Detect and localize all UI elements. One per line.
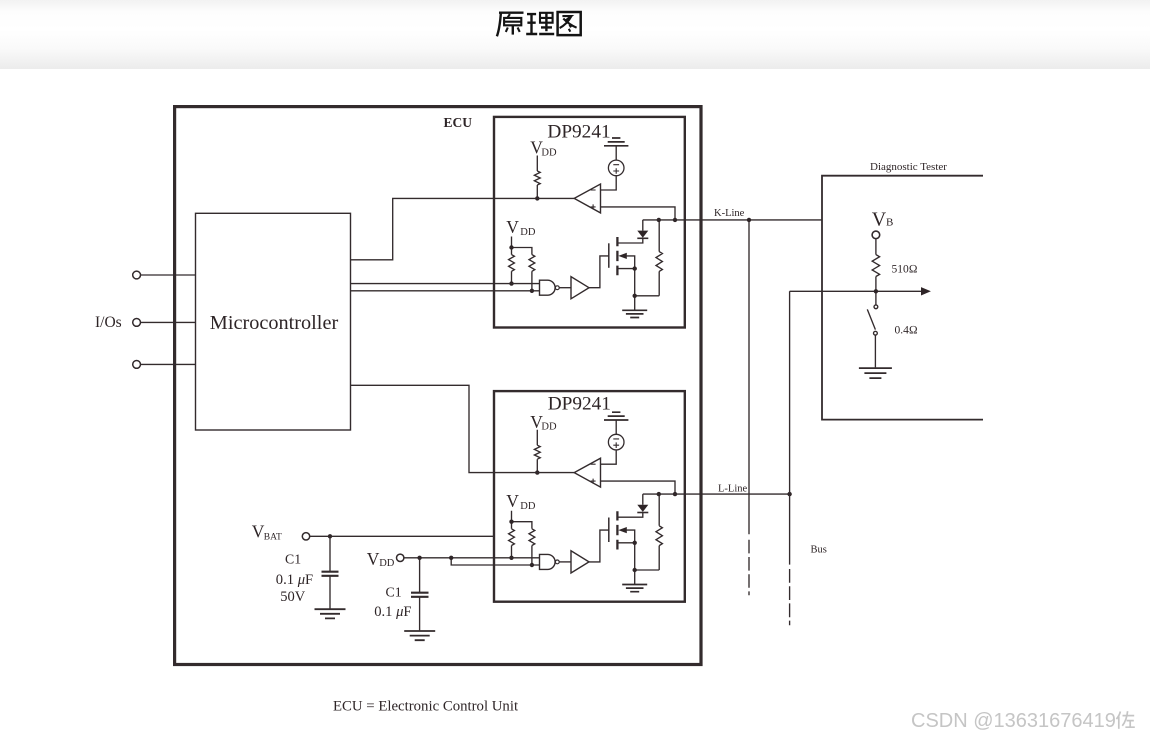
svg-text:V: V	[367, 549, 380, 569]
svg-text:DD: DD	[379, 558, 395, 569]
svg-text:DP9241: DP9241	[547, 122, 610, 143]
svg-text:ECU = Electronic Control Unit: ECU = Electronic Control Unit	[333, 698, 519, 714]
svg-text:0.4Ω: 0.4Ω	[895, 325, 918, 337]
svg-text:510Ω: 510Ω	[892, 264, 918, 276]
svg-text:Bus: Bus	[811, 545, 827, 556]
svg-text:B: B	[886, 217, 893, 229]
svg-text:Microcontroller: Microcontroller	[210, 312, 339, 334]
svg-text:BAT: BAT	[264, 533, 282, 543]
svg-text:50V: 50V	[280, 589, 306, 605]
svg-text:K-Line: K-Line	[714, 208, 745, 219]
svg-text:I/Os: I/Os	[95, 314, 122, 331]
svg-text:DP9241: DP9241	[548, 393, 611, 414]
svg-text:C1: C1	[386, 585, 402, 600]
svg-text:V: V	[872, 208, 887, 230]
svg-text:CSDN @13631676419: CSDN @13631676419	[911, 710, 1116, 732]
svg-text:0.1 μF: 0.1 μF	[374, 604, 411, 620]
svg-text:C1: C1	[285, 552, 301, 567]
svg-text:0.1 μF: 0.1 μF	[276, 572, 313, 588]
svg-text:L-Line: L-Line	[718, 484, 747, 495]
svg-text:ECU: ECU	[443, 115, 472, 130]
svg-text:Diagnostic Tester: Diagnostic Tester	[870, 161, 947, 173]
